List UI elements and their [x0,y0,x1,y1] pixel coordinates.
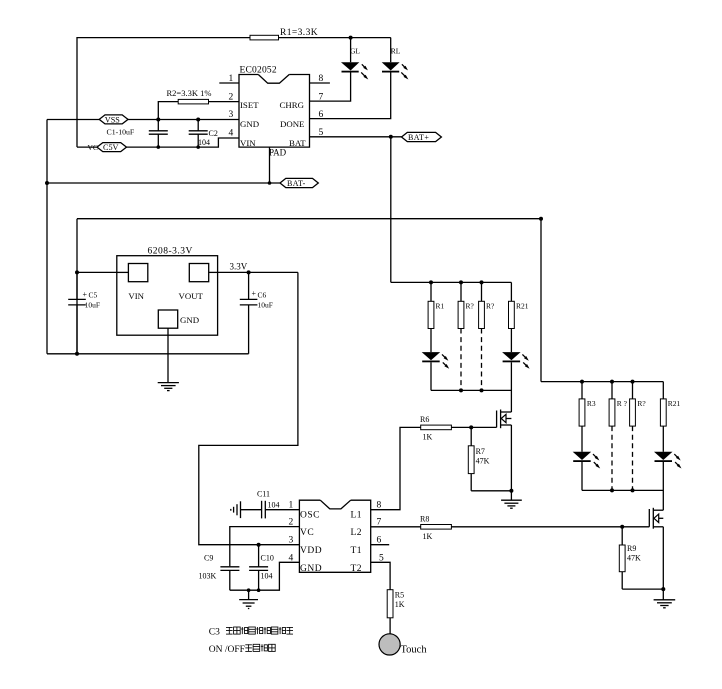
svg-text:ON /OFF: ON /OFF [209,645,245,655]
svg-text:C5V: C5V [103,143,119,152]
label R21 bank2 [668,399,681,408]
wire: PAD to BAT- rail [268,147,272,185]
wire: left vertical segment B to VIN of regulator [76,219,78,354]
dashed omitted LED bank2 col3 [632,426,634,490]
label R9 [627,544,636,553]
svg-text:R?: R? [637,399,646,408]
junction C2 top [196,118,200,122]
svg-text:R9: R9 [627,544,636,553]
pin 6 T1 stub [371,544,390,546]
pin number 2 U3 [289,518,294,528]
junction C5 bottom [75,352,79,356]
junction at bank 2 feed corner [539,217,543,221]
resistor R? bank1 col3 [479,282,485,328]
svg-text:6: 6 [377,536,382,546]
pin square GND U2 [158,310,177,335]
wire: BAT+ vertical to LED bank 1 [390,137,392,283]
junction BAT+ node [389,135,393,139]
label R? bank1 col3 [486,302,495,311]
wire: top rail from R1 to RL column [279,37,391,39]
svg-text:C2: C2 [209,129,218,138]
pin number 5 U3 [379,553,384,563]
capacitor C10 [249,545,268,591]
wire: VC pin 2 to C9 [230,527,300,567]
capacitor C11 [241,501,266,519]
IC U1 EC02052 body [239,75,310,148]
label R? bank2 col2 [617,399,628,408]
wire: T2 pin 5 to R5 [371,562,390,589]
resistor R? bank2 col2 [609,382,615,427]
svg-text:104: 104 [198,138,210,147]
svg-text:C9: C9 [204,554,213,563]
label EC02052 [240,66,277,76]
LED bank2 col1 [573,426,601,490]
label R? bank2 col3 [637,399,646,408]
junction bank2 bottom col2 [610,488,614,492]
svg-text:1K: 1K [423,532,433,541]
svg-text:104: 104 [268,501,280,510]
svg-text:3.3V: 3.3V [230,262,248,272]
net tag BAT+ [402,132,442,142]
wire: VOUT 3.3V to right vertical [218,271,298,273]
wire: U2 GND drop to earth [167,335,169,382]
svg-text:GND: GND [300,564,322,574]
svg-text:1K: 1K [423,433,433,442]
label C6 [258,291,267,300]
wire: regulator bottom rail [47,353,249,355]
pin number 4 U3 [289,553,294,563]
wire: resistor R2 left leg [158,102,178,120]
label R7 [476,447,485,456]
svg-text:EC02052: EC02052 [240,66,277,76]
junction C5 top node [75,270,79,274]
wire: bank1 to Q1 drain [510,362,512,412]
polarity plus C5 [83,290,88,299]
svg-text:R?: R? [466,302,475,311]
pin square VOUT [189,264,217,282]
junction at top rail and GL anode [349,36,353,40]
label GL [350,47,360,56]
svg-text:T2: T2 [351,564,363,574]
svg-text:3: 3 [289,536,294,546]
pin label VDD [300,546,322,556]
svg-text:R3: R3 [587,399,596,408]
pin label T2 [351,564,363,574]
junction C1 top [156,118,160,122]
resistor R7 [468,427,474,490]
resistor R1 bank1 col1 [428,282,434,328]
svg-text:BAT+: BAT+ [408,133,429,142]
wire: OSC pin 1 to C11 [265,509,299,511]
svg-text:7: 7 [319,92,324,102]
wire: C5V tag drop from top-left vertical [76,146,78,147]
capacitor C6 polarized [240,272,258,353]
svg-text:47K: 47K [476,457,490,466]
net tag VSS [99,115,128,124]
junction bank2 rail col1 [580,380,584,384]
svg-text:BAT-: BAT- [287,179,306,188]
dashed omitted LED col2 [460,329,462,391]
dashed omitted LED bank2 col2 [611,426,613,490]
wire: Q2 source to ground node [662,527,664,600]
svg-text:1: 1 [229,74,234,84]
svg-text:C11: C11 [257,490,270,499]
net tag BAT- [280,178,318,188]
value label 47K R9 [627,554,641,563]
svg-text:DONE: DONE [280,119,304,129]
svg-text:L2: L2 [351,528,363,538]
IC U2 6208-3.3V body [117,256,218,336]
resistor R21 bank1 col4 [509,282,515,328]
LED bank1 col1 [422,329,450,391]
resistor R? bank2 col3 [630,382,636,427]
wire: L1 gate drive riser [371,427,421,509]
ground symbol touch section [239,600,258,609]
wire: GL anode drop [350,38,352,63]
junction bank1 bottom col3 [480,388,484,392]
pin number 5 [319,128,324,138]
pin label T1 [351,546,363,556]
label R21 bank1 [516,302,529,311]
wire: R9 bottom to Q2 source [622,588,663,590]
note line 2 ON OFF function [209,644,275,655]
svg-text:C3: C3 [209,628,220,638]
ground symbol Q2 [654,600,676,608]
junction C2 bottom [157,145,201,149]
pin label VOUT U2 [179,291,204,301]
junction bank1 rail col1 [429,280,433,284]
svg-text:47K: 47K [627,554,641,563]
junction bank2 rail col3 [631,380,635,384]
pin number 4 [229,129,234,139]
value label R2=3.3K 1% [167,88,212,98]
wire: R6 to Q1 gate [451,426,496,428]
junction bank2 bottom col3 [631,488,635,492]
svg-text:ISET: ISET [240,100,259,110]
pin label OSC [300,511,320,521]
svg-text:C1-10uF: C1-10uF [107,127,135,136]
svg-text:R7: R7 [476,447,485,456]
LED bank1 col4 [502,329,529,369]
pin number 8 U3 [377,501,382,511]
svg-text:VOUT: VOUT [179,291,204,301]
resistor R2 [178,99,208,104]
junction R7 top [469,425,473,429]
value label 104 C2 [198,138,210,147]
LED RL [382,62,409,79]
pin square VIN [117,264,148,282]
capacitor C5 polarized [68,272,86,353]
svg-text:R8: R8 [420,515,429,524]
wire: R2 to pin 2 ISET [209,101,240,103]
value label 10uF C6 [258,301,273,310]
svg-text:3: 3 [229,110,234,120]
resistor R9 [619,527,625,589]
value label C1-10uF [107,127,135,136]
svg-text:10uF: 10uF [85,301,100,310]
label 6208-3.3V [148,247,193,257]
capacitor C1 [149,120,168,148]
pin number 7 U3 [377,518,382,528]
svg-text:2: 2 [229,92,234,102]
svg-text:R ?: R ? [617,399,628,408]
svg-text:1K: 1K [395,600,405,609]
wire: bank2 to Q2 drain [662,462,664,510]
svg-text:C6: C6 [258,291,267,300]
junction C10 top on VDD line [257,543,261,547]
svg-text:8: 8 [319,74,324,84]
label R5 [395,591,404,600]
svg-text:VIN: VIN [240,138,256,148]
wire: R7 bottom to Q1 source [471,490,511,492]
svg-text:R6: R6 [420,415,429,424]
value label 1K R5 [395,600,405,609]
resistor R8 [421,525,452,530]
pin label GND U1 [240,119,259,129]
pin number 1 [229,74,234,84]
svg-text:6: 6 [319,110,324,120]
wire: ground drop C9 C10 [248,590,250,599]
junction R9 top gate node [620,525,624,529]
svg-text:C5: C5 [89,291,98,300]
label R3 bank2 [587,399,596,408]
svg-text:6208-3.3V: 6208-3.3V [148,247,193,257]
value label 1K R8 [423,532,433,541]
value label 104 C10 [261,572,273,581]
dashed omitted LED col3 [481,329,483,391]
junction Q1 source R7 [509,489,513,493]
wire: middle distribution rail to bank 2 [77,219,541,382]
label R8 [420,515,429,524]
svg-text:+: + [83,290,88,299]
LED bank2 col4 [654,426,682,468]
label RL [391,47,401,56]
pin label L1 [351,511,363,521]
label R1 bank1 [436,302,445,311]
svg-text:+: + [252,289,257,298]
svg-text:T1: T1 [351,546,363,556]
transistor Q2 NMOS [649,508,663,529]
resistor R? bank1 col2 [458,282,464,328]
ground symbol under regulator [158,383,179,391]
junction bank1 bottom col2 [459,388,463,392]
svg-text:R1: R1 [436,302,445,311]
svg-text:R1=3.3K: R1=3.3K [280,28,318,38]
pin number 1 U3 [289,501,294,511]
wire: VIN to C5 node [77,271,117,273]
junction bank1 rail col2 [459,280,463,284]
svg-text:1: 1 [289,501,294,511]
label C10 [261,554,274,563]
polarity plus C6 [252,289,257,298]
wire: left vertical VSS to regulator bottom rail [46,120,48,354]
LED GL [341,62,368,79]
svg-text:R21: R21 [516,302,529,311]
wire: top rail left segment from left vertical to R1 [77,38,250,146]
svg-text:10uF: 10uF [258,301,273,310]
label C2 [209,129,218,138]
wire: LED bank 1 top rail [391,281,512,283]
pin label BAT [289,138,306,148]
capacitor C9 [220,567,239,590]
svg-text:BAT: BAT [289,138,306,148]
wire: LED bank 1 bottom rail [431,389,511,391]
wire: RL anode drop [390,38,392,63]
svg-text:8: 8 [377,501,382,511]
label C11 [257,490,270,499]
junction bank2 rail col2 [610,380,614,384]
capacitor C2 [189,120,208,148]
svg-text:R?: R? [486,302,495,311]
pin 1 stub [219,82,239,84]
svg-text:RL: RL [391,47,401,56]
pin number 6 [319,110,324,120]
pin number 7 [319,92,324,102]
pin label ISET [240,100,259,110]
wire: LED bank 2 top rail [541,381,663,383]
net tag C5V [97,143,127,152]
wire: L2 pin 7 to R8 [371,526,421,528]
pin label GND U3 [300,564,322,574]
svg-text:104: 104 [261,572,273,581]
wire: VSS rail to pin 3 GND [47,119,239,121]
pin label GND U2 [180,315,199,325]
pin label CHRG [280,100,305,110]
wire: LED bank 2 bottom rail [582,489,663,491]
svg-text:GND: GND [180,315,199,325]
pin 8 stub [310,82,330,84]
svg-text:OSC: OSC [300,511,320,521]
pin label VC [300,528,314,538]
value label 10uF C5 [85,301,100,310]
svg-text:R21: R21 [668,399,681,408]
resistor R6 [421,425,452,430]
label VC [88,143,98,152]
svg-text:C10: C10 [261,554,274,563]
label C5 [89,291,98,300]
transistor Q1 NMOS [497,410,512,429]
junction ground node bottom rail [247,588,261,592]
pin label L2 [351,528,363,538]
svg-text:GND: GND [240,119,259,129]
junction C6 top node [247,270,251,274]
label Touch [401,645,428,656]
junction BAT- left [45,181,49,185]
svg-text:PAD: PAD [269,148,287,158]
svg-text:VSS: VSS [105,115,120,124]
wire: 3.3V right vertical down [199,272,300,544]
svg-text:Touch: Touch [401,645,428,656]
svg-text:7: 7 [377,518,382,528]
pin number 3 U3 [289,536,294,546]
note line 1 C3 sensitivity [209,627,293,638]
ground symbol Q1 [501,500,522,508]
resistor R1 [250,35,279,40]
svg-text:4: 4 [229,129,234,139]
pin label PAD [269,148,287,158]
wire: C9 C10 bottom rail to GND pin 4 [230,562,300,590]
wire: GL cathode to pin 7 [310,73,351,102]
pin number 6 U3 [377,536,382,546]
svg-text:VDD: VDD [300,546,322,556]
ground symbol C11 rotated [231,501,241,518]
value label 103K C9 [199,572,217,581]
pin label VIN U1 [240,138,256,148]
resistor R5 [387,590,393,634]
svg-text:CHRG: CHRG [280,100,305,110]
wire: BAT- rail [47,182,280,184]
value label R1=3.3K [280,28,318,38]
wire: C5V rail to pin 4 VIN [77,138,239,147]
pin label VIN U2 [128,291,144,301]
junction Q2 source R9 [661,587,665,591]
label R? bank1 col2 [466,302,475,311]
svg-text:GL: GL [350,47,360,56]
svg-text:R2=3.3K 1%: R2=3.3K 1% [167,88,212,98]
wire: pin 5 BAT to BAT+ tag [310,136,402,138]
pin number 2 [229,92,234,102]
junction bank1 rail col3 [480,280,484,284]
resistor R21 bank2 col4 [660,382,666,427]
label R6 [420,415,429,424]
wire: R8 to Q2 gate [451,526,649,528]
label C9 [204,554,213,563]
value label 1K R6 [423,433,433,442]
svg-text:VIN: VIN [128,291,144,301]
touch pad electrode [379,634,400,655]
wire: Q1 source to ground node [510,425,512,500]
svg-text:R5: R5 [395,591,404,600]
pin label DONE [280,119,304,129]
value label 104 C11 [268,501,280,510]
IC U3 touch controller body [299,500,370,572]
svg-text:VC: VC [300,528,314,538]
wire: RL cathode to pin 6 [310,73,391,119]
pin number 8 [319,74,324,84]
svg-text:103K: 103K [199,572,217,581]
resistor R3 bank2 col1 [579,382,585,427]
svg-text:L1: L1 [351,511,363,521]
value label 47K R7 [476,457,490,466]
label 3.3V [230,262,248,272]
pin number 3 [229,110,234,120]
